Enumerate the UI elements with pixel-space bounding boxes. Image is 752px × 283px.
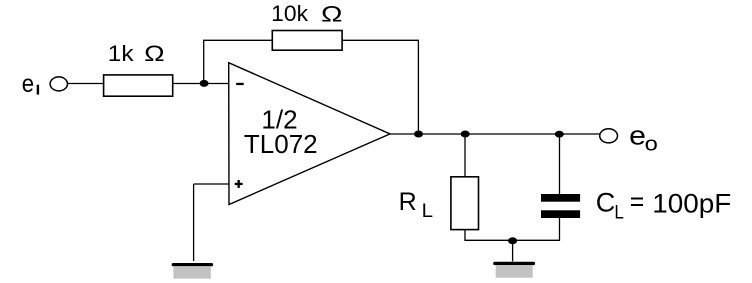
label C_L = 100pF xyxy=(596,186,732,223)
svg-text:R: R xyxy=(399,188,417,216)
svg-text:TL072: TL072 xyxy=(244,129,318,159)
wire feedback right vertical xyxy=(417,40,419,134)
wire input terminal to R1 xyxy=(68,83,104,85)
label 1k Ω xyxy=(108,41,165,66)
junction dot inverting node xyxy=(200,80,209,87)
wire ground stem left xyxy=(193,184,195,261)
svg-text:10k: 10k xyxy=(271,1,309,26)
label R_L xyxy=(399,188,433,222)
label e_o xyxy=(629,120,658,155)
svg-text:Ω: Ω xyxy=(144,41,165,66)
resistor RL xyxy=(451,177,479,230)
wire plus input xyxy=(194,183,229,185)
svg-text:=: = xyxy=(630,186,645,216)
svg-text:1k: 1k xyxy=(108,41,135,66)
resistor R2 10k xyxy=(272,31,342,51)
wire RL bottom xyxy=(465,230,560,241)
node e_o output terminal xyxy=(600,129,618,143)
wire ground stem right xyxy=(512,241,514,261)
svg-text:100pF: 100pF xyxy=(652,188,731,218)
svg-text:L: L xyxy=(614,202,624,223)
ground right xyxy=(493,262,535,278)
wire CL vertical top xyxy=(559,134,561,194)
svg-text:Ω: Ω xyxy=(321,1,343,26)
svg-text:L: L xyxy=(422,201,433,222)
junction dot CL branch xyxy=(555,131,564,138)
node e_I input terminal xyxy=(50,77,67,91)
svg-text:o: o xyxy=(645,133,658,155)
op-amp U1 minus pin mark xyxy=(236,83,244,85)
wire R1 to inverting node xyxy=(173,83,229,85)
label 10k Ω xyxy=(271,1,342,26)
op-amp U1 triangle xyxy=(229,63,390,205)
resistor R1 1k xyxy=(104,75,173,96)
svg-text:e: e xyxy=(22,70,34,98)
wire feedback left vertical xyxy=(203,40,205,83)
wire RL vertical xyxy=(464,134,466,177)
op-amp U1 plus pin mark xyxy=(235,180,243,188)
junction dot feedback/output xyxy=(414,131,423,138)
junction dot RL branch xyxy=(461,131,470,138)
wire feedback top left xyxy=(203,39,272,41)
junction dot ground node xyxy=(508,237,517,244)
capacitor CL plates xyxy=(541,194,580,218)
wire feedback top right xyxy=(342,39,418,41)
svg-text:C: C xyxy=(596,188,616,218)
wire output xyxy=(390,133,600,135)
svg-text:e: e xyxy=(629,120,646,150)
wire CL vertical bottom xyxy=(559,218,561,240)
label e_I xyxy=(22,70,39,98)
ground left xyxy=(172,263,213,279)
